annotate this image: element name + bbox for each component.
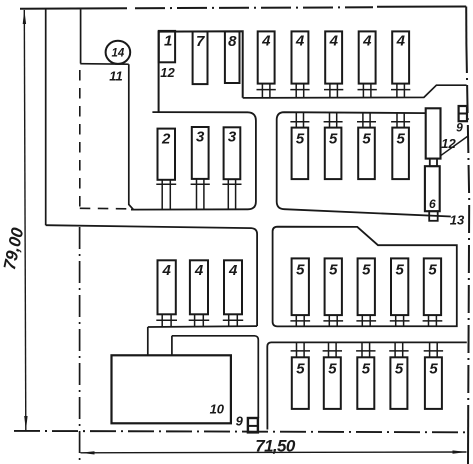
legs of building 3 (second) [222,179,241,209]
top site boundary (solid run) [20,7,127,10]
svg-text:3: 3 [196,129,205,146]
building 5 (row 3 #5) [424,258,441,315]
top service road / bus [243,85,467,98]
building 2 [158,129,176,180]
svg-text:2: 2 [161,131,171,148]
legs of building 5 (row 3 #3) [356,315,376,326]
building 5 (row 1 #2) [325,128,342,180]
svg-text:5: 5 [429,361,438,378]
building 4 (top row #4) [359,31,376,83]
group 5-row1 outline (bus and road 13) [277,112,451,216]
svg-text:4: 4 [396,33,406,50]
road from left to corridor (y=225) [46,225,257,326]
building 5 (row 3 #4) [391,258,408,315]
legs of building 4 (middle row #2) [189,314,210,326]
building 5 (row 3 #3) [358,258,375,315]
legs of building 4 (top row #5) [391,84,410,98]
svg-text:12: 12 [441,136,456,151]
svg-text:12: 12 [160,65,175,80]
svg-text:11: 11 [109,69,123,84]
legs of building 5 (row 3 #5) [423,315,443,326]
wire: riser from unit 14 to road [129,64,134,209]
building 4 (top row #2) [292,31,309,83]
legs of building 3 (first) [191,179,210,209]
building 5 (row 4 #3) [357,357,374,409]
dashed yard boundary horizontal [80,207,130,210]
svg-text:4: 4 [162,262,172,279]
dashed yard boundary vertical [79,70,81,207]
legs of building 5 (row 1 #2) [324,113,343,128]
building 4 (top row #1) [258,31,275,83]
top-right boundary (solid) [377,6,466,8]
building 1 [159,31,175,62]
svg-text:4: 4 [329,33,339,50]
group 2-3-3 outline with road [131,112,256,210]
legs of building 5 (row 3 #4) [390,315,410,326]
svg-text:4: 4 [295,33,305,50]
svg-text:1: 1 [164,33,172,50]
extension line (dash-dot) at x=79.6 [79,227,81,460]
svg-text:4: 4 [194,262,204,279]
foot of unit 6 [429,211,438,221]
legs of building 2 [156,180,176,210]
svg-text:6: 6 [429,197,436,211]
building 4 (middle row #2) [190,260,208,314]
legs of building 4 (top row #3) [324,84,343,98]
group row4 bus and left edge [267,342,467,429]
building 3 (second) [224,127,241,179]
dimension line 71,50 [81,451,467,454]
building 4 (middle row #3) [224,260,242,314]
legs of building 5 (row 4 #3) [356,343,375,358]
svg-text:4: 4 [228,262,238,279]
svg-text:5: 5 [328,361,337,378]
svg-text:8: 8 [228,33,237,50]
unit 12 (tall) [426,108,441,158]
building 5 (row 4 #5) [425,357,442,409]
wire: line under unit 14 [80,63,129,65]
bus B (to gate 9) [172,336,258,418]
building 5 (row 3 #2) [325,258,342,315]
svg-text:79,00: 79,00 [0,226,27,272]
building 5 (row 4 #4) [390,357,407,409]
svg-text:5: 5 [329,131,338,148]
neck between 12 and 6 [430,159,437,167]
building 4 (middle row #1) [158,260,176,314]
building 7 [193,32,208,85]
building 5 (row 1 #3) [358,128,375,180]
building 8 [225,32,240,84]
svg-text:71,50: 71,50 [255,437,296,456]
svg-text:5: 5 [296,361,305,378]
group row3 outline [273,227,457,327]
legs of building 5 (row 4 #5) [424,343,443,358]
unit 14 (circle) [106,41,131,64]
legs of building 5 (row 3 #2) [323,315,343,326]
legs of building 5 (row 3 #1) [290,315,310,326]
legs of building 4 (top row #4) [358,84,377,98]
plan line: vertical to unit 14 [80,10,82,64]
legs of building 5 (row 4 #1) [291,343,310,358]
svg-text:5: 5 [329,262,338,279]
legs of building 5 (row 1 #4) [391,113,410,128]
svg-text:9: 9 [456,121,463,135]
building 3 (first) [192,127,209,179]
legs of building 5 (row 1 #1) [290,113,309,128]
building 5 (row 4 #2) [324,357,341,409]
group 1-7-8 outline [159,31,243,112]
legs of building 4 (top row #2) [290,84,309,98]
gate 9 (bottom) [248,418,258,432]
legs of building 4 (middle row #1) [156,314,177,326]
svg-text:14: 14 [112,48,125,60]
svg-text:5: 5 [396,262,405,279]
building 4 (top row #5) [392,31,409,83]
building 5 (row 1 #4) [392,128,409,180]
building 4 (top row #3) [325,31,342,83]
svg-text:5: 5 [296,131,305,148]
right site boundary [465,7,467,46]
building 10 [112,355,231,423]
svg-text:7: 7 [196,33,205,50]
svg-text:5: 5 [397,131,406,148]
svg-text:4: 4 [362,33,372,50]
legs of building 5 (row 4 #2) [323,343,342,358]
building 5 (row 1 #1) [292,128,309,180]
top site boundary (dash-dot) [135,6,373,9]
svg-text:10: 10 [210,402,225,417]
bus A (mid-left 4 row) [148,326,257,355]
svg-text:13: 13 [450,213,465,228]
bottom site boundary (dash-dot) [14,431,468,432]
svg-text:3: 3 [228,129,237,146]
leader/road to boundary at unit 12 [441,136,468,156]
building 5 (row 4 #1) [292,357,309,409]
legs of building 4 (middle row #3) [223,314,243,326]
svg-text:5: 5 [296,262,305,279]
building 5 (row 3 #1) [292,258,309,315]
svg-text:9: 9 [236,414,244,429]
dimension line 79,00 [24,10,26,430]
legs of building 5 (row 4 #4) [389,343,408,358]
svg-text:5: 5 [428,262,437,279]
svg-text:4: 4 [261,33,271,50]
svg-text:5: 5 [362,262,371,279]
legs of building 4 (top row #1) [257,84,276,98]
svg-text:5: 5 [395,361,404,378]
gate 9 (right boundary) [459,106,467,121]
plan line: left inner vertical [45,10,47,226]
svg-text:5: 5 [362,361,371,378]
unit 6 [425,166,440,211]
legs of building 5 (row 1 #3) [357,113,376,128]
svg-text:5: 5 [362,131,371,148]
